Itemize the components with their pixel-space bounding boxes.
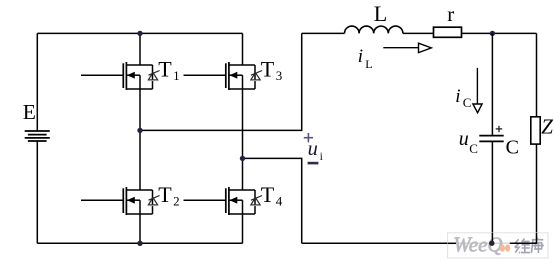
wire: right leg middle segment (T3 source to T4 drain) bbox=[242, 89, 244, 190]
svg-text:u: u bbox=[308, 138, 318, 160]
watermark orange o1 bbox=[500, 245, 505, 252]
wire: bottom right rail bbox=[302, 242, 537, 244]
watermark box bbox=[448, 233, 548, 258]
wire: right leg drain segment (top rail to T3) bbox=[242, 33, 244, 65]
battery E bbox=[25, 131, 50, 141]
svg-text:Z: Z bbox=[541, 114, 553, 138]
svg-text:u: u bbox=[459, 128, 469, 150]
wire: left leg middle segment (T1 source to T2 drain) bbox=[139, 89, 141, 190]
junction dot top rail at capacitor branch bbox=[490, 31, 495, 36]
wire: top rail of bridge bbox=[37, 32, 242, 34]
wire: upper output (node A to right riser) bbox=[140, 33, 302, 130]
transistor T1 bbox=[81, 62, 160, 90]
wire: rail segment over watermark left bbox=[448, 242, 456, 244]
svg-text:T3: T3 bbox=[261, 57, 282, 84]
watermark CJK glyph ku bbox=[531, 238, 544, 253]
svg-text:C: C bbox=[469, 141, 478, 156]
wire: Z branch lower bbox=[536, 144, 538, 243]
svg-text:L: L bbox=[365, 57, 372, 71]
capacitor C plates bbox=[479, 136, 503, 142]
svg-text:T1: T1 bbox=[158, 57, 179, 84]
wire: left rail lower (battery bottom to bottom rail) bbox=[36, 141, 38, 243]
arrow iC bbox=[473, 68, 482, 113]
svg-text:C: C bbox=[506, 137, 519, 159]
wire: capacitor branch through watermark bbox=[491, 233, 493, 244]
svg-text:T4: T4 bbox=[261, 182, 283, 209]
transistor T3 bbox=[184, 62, 263, 90]
svg-text:C: C bbox=[463, 95, 472, 110]
node A junction dot bbox=[137, 128, 142, 133]
wire: bottom rail of bridge bbox=[37, 242, 242, 244]
impedance Z box bbox=[531, 117, 540, 144]
wire: left leg drain segment (top rail to T1) bbox=[139, 33, 141, 65]
wire: Z branch upper bbox=[536, 33, 538, 116]
node B junction dot bbox=[240, 156, 245, 161]
watermark CJK glyph wei bbox=[515, 239, 531, 253]
svg-text:T2: T2 bbox=[158, 182, 179, 209]
junction dot bottom rail at T2 source bbox=[137, 241, 142, 246]
wire: capacitor branch lower bbox=[491, 141, 493, 243]
junction dot top rail at T1 drain bbox=[137, 31, 142, 36]
svg-text:E: E bbox=[23, 100, 36, 124]
svg-text:r: r bbox=[447, 2, 454, 26]
junction dot bottom rail at capacitor branch bbox=[489, 241, 494, 246]
wire: top right rail before inductor bbox=[302, 32, 345, 34]
svg-text:i: i bbox=[455, 86, 460, 107]
label + of ui bbox=[304, 133, 313, 142]
transistor T2 bbox=[81, 187, 160, 215]
junction dot redrawn over watermark bbox=[489, 241, 494, 246]
resistor r bbox=[434, 27, 462, 37]
wire: left leg bottom segment (T2 source to bottom rail) bbox=[139, 214, 141, 243]
wire: between inductor and resistor bbox=[403, 32, 434, 34]
svg-text:i: i bbox=[358, 46, 363, 67]
wire: resistor to top right corner bbox=[462, 32, 537, 34]
wire: right leg bottom segment (T4 source to bottom rail) bbox=[242, 214, 244, 243]
wire: Z branch through watermark bbox=[536, 233, 538, 244]
label + of capacitor bbox=[496, 126, 503, 132]
watermark orange o2 bbox=[505, 245, 510, 252]
svg-text:WeeQ: WeeQ bbox=[453, 233, 502, 257]
wire: left rail upper (battery top to top rail) bbox=[36, 33, 38, 131]
arrow iL bbox=[383, 43, 431, 52]
wire: rail segment over watermark right bbox=[510, 242, 537, 244]
wire: lower output (node B to right downer) bbox=[243, 158, 302, 243]
svg-text:i: i bbox=[320, 149, 324, 163]
transistor T4 bbox=[184, 187, 263, 215]
inductor L bbox=[345, 26, 403, 33]
wire: capacitor branch upper bbox=[491, 33, 493, 135]
svg-text:L: L bbox=[374, 1, 387, 26]
label - of ui bbox=[308, 162, 319, 165]
